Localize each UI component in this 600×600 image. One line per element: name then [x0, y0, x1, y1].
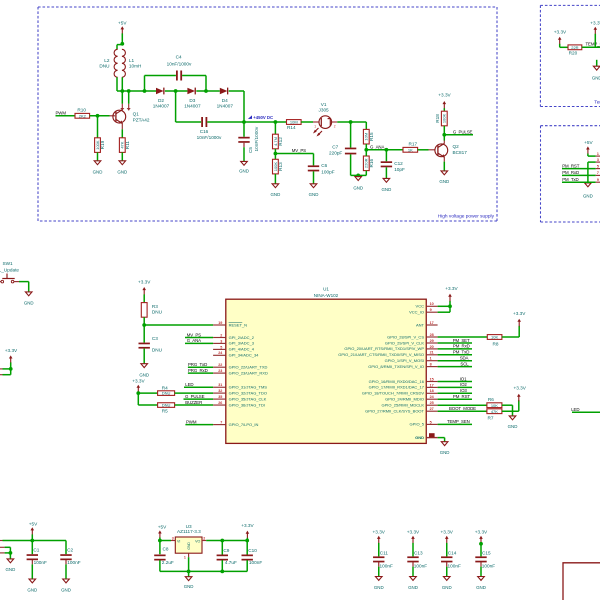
- svg-text:R3: R3: [152, 304, 158, 309]
- wire C4 left branch up: [144, 76, 146, 92]
- wire +3.3V to R3: [143, 294, 145, 302]
- power +3.3V (U1 VCC): [448, 294, 452, 297]
- U1 pin 28 GPIO_28/SPI_V_CS: [426, 336, 437, 338]
- svg-text:10nF/1000v: 10nF/1000v: [254, 126, 259, 151]
- U1 pin 24 GPI_34/ADC_34: [213, 354, 226, 356]
- svg-text:J305: J305: [319, 108, 330, 113]
- svg-text:2: 2: [334, 125, 336, 129]
- capacitor C15 100nF: [475, 556, 486, 558]
- svg-text:17: 17: [430, 383, 434, 387]
- wire +3.3V to connector pins: [10, 362, 12, 374]
- wire MV_PS to pin 2: [185, 337, 213, 339]
- U1 pin 26 GPIO_36/JTAG_TDI: [213, 404, 226, 406]
- svg-text:+3.3V: +3.3V: [438, 93, 451, 98]
- ground (sensor): [593, 66, 600, 70]
- power +5V (HV input): [121, 26, 125, 29]
- svg-text:PWM: PWM: [56, 111, 67, 116]
- junction MV_PS node: [274, 149, 276, 154]
- svg-text:GND: GND: [382, 187, 392, 192]
- capacitor C8 2.2uF: [154, 555, 165, 557]
- svg-text:VO: VO: [195, 539, 200, 543]
- svg-text:32: 32: [218, 389, 222, 393]
- svg-text:G_PULSE: G_PULSE: [185, 394, 205, 399]
- U1 pin GND: [426, 437, 437, 439]
- ground R19: [94, 161, 101, 165]
- sheet box: PM sensor connector (clipped): [541, 125, 600, 127]
- svg-text:7: 7: [597, 171, 599, 175]
- svg-text:21: 21: [430, 351, 434, 355]
- svg-text:100pF: 100pF: [321, 170, 334, 175]
- svg-text:GPIO_35/JTAG_CLK: GPIO_35/JTAG_CLK: [229, 396, 267, 401]
- svg-text:GPIO_1/SPI_V_MOSI: GPIO_1/SPI_V_MOSI: [385, 358, 424, 363]
- svg-text:GND: GND: [442, 585, 452, 590]
- U1 pin 23 GPIO_23/UART_RXD: [213, 372, 226, 374]
- svg-text:GND: GND: [6, 567, 16, 572]
- wire edge pin to +5V rail: [0, 540, 3, 542]
- wire to R5: [138, 404, 157, 406]
- wire PWM to R10: [56, 115, 76, 117]
- junction R12 top: [274, 120, 278, 124]
- wire PRG_RxD to pin 23: [188, 372, 213, 374]
- resistor R16 220R: [363, 156, 369, 171]
- svg-text:22R: 22R: [571, 45, 578, 50]
- svg-text:PM_SET: PM_SET: [453, 338, 470, 343]
- power +3.3V (C14): [445, 536, 449, 539]
- svg-text:GND: GND: [508, 424, 518, 429]
- power +3.3V (C11): [377, 536, 381, 539]
- svg-text:C9: C9: [223, 548, 229, 553]
- U1 pin 19 RESET_N: [213, 324, 226, 326]
- resistor R5 DNU: [158, 403, 175, 408]
- svg-text:+3.3V: +3.3V: [590, 20, 600, 25]
- svg-text:SW1: SW1: [3, 261, 14, 266]
- diode D2 1N4007: [156, 88, 164, 95]
- wire G_PULSE to pin 35: [184, 398, 214, 400]
- svg-text:DNU: DNU: [162, 403, 171, 408]
- svg-text:C2: C2: [67, 548, 73, 553]
- ground (PM connector): [585, 183, 592, 187]
- wire +3.3V to C13: [412, 543, 414, 557]
- power +5V (main input): [31, 527, 35, 530]
- edge connector gnd pins: [0, 546, 5, 548]
- svg-text:+450V DC: +450V DC: [253, 115, 273, 120]
- wire SDA: [438, 360, 472, 362]
- junction C9 bottom: [220, 570, 224, 574]
- svg-text:GPIO_16/RMII_RXD0/DAC_16: GPIO_16/RMII_RXD0/DAC_16: [369, 379, 425, 384]
- svg-text:1: 1: [184, 555, 186, 559]
- wire R7 to +3.3V: [502, 410, 519, 412]
- svg-text:L2: L2: [104, 58, 110, 63]
- svg-text:R20: R20: [569, 50, 578, 55]
- wire U1 GND pin to ground: [438, 437, 445, 439]
- svg-text:100nF: 100nF: [414, 564, 427, 569]
- wire VCC/VCC_IO to +3.3V: [438, 305, 450, 307]
- svg-text:18: 18: [430, 389, 434, 393]
- svg-text:PM_TxD: PM_TxD: [453, 350, 469, 355]
- sheet box: temperature sensor (clipped): [540, 4, 600, 6]
- svg-text:26: 26: [218, 401, 222, 405]
- wire Q1 collector pins to rail: [121, 91, 123, 104]
- junction C15: [479, 542, 483, 546]
- svg-text:23: 23: [218, 369, 222, 373]
- ground Q2: [441, 171, 448, 175]
- svg-text:8: 8: [430, 363, 432, 367]
- ground C13: [410, 577, 417, 581]
- wire L1 bottom to rail: [121, 77, 123, 91]
- svg-text:10nF/1000v: 10nF/1000v: [167, 62, 192, 67]
- svg-text:GND: GND: [309, 192, 319, 197]
- svg-text:PM_RxD: PM_RxD: [453, 344, 470, 349]
- wire jog to L2 top: [117, 44, 122, 46]
- svg-text:R16: R16: [369, 159, 374, 168]
- gnd rail U3: [160, 570, 247, 572]
- U1 pin 25 GPIO_25/RMII_MDCLK: [426, 404, 437, 406]
- U1 pin 15 GPIO_16/RMII_RXD0/DAC_16: [426, 381, 437, 383]
- svg-text:GPIO_5: GPIO_5: [410, 422, 425, 427]
- junction +450V node: [242, 120, 246, 124]
- junction R19 top: [96, 114, 100, 118]
- svg-text:R7: R7: [488, 416, 494, 421]
- svg-text:C12: C12: [394, 161, 403, 166]
- geiger tube V1 J305: [319, 116, 332, 129]
- svg-text:DNU: DNU: [162, 391, 171, 396]
- power +5V (regulator): [158, 530, 162, 533]
- svg-text:GPI_3/ADC_3: GPI_3/ADC_3: [229, 341, 255, 346]
- svg-text:15: 15: [430, 377, 434, 381]
- capacitor C14 100nF: [441, 556, 452, 558]
- U1 pin 5 GPIO_5: [426, 423, 437, 425]
- svg-text:Q1: Q1: [133, 112, 140, 117]
- svg-text:7: 7: [220, 421, 222, 425]
- junction U3 gnd: [187, 570, 191, 574]
- junction C12 top: [385, 148, 389, 152]
- svg-text:47K: 47K: [491, 409, 498, 414]
- wire PM_SET: [438, 342, 472, 344]
- svg-text:R6: R6: [488, 397, 494, 402]
- wire +5V to U3 VI: [159, 538, 161, 555]
- svg-text:LED: LED: [185, 382, 193, 387]
- power +3.3V (C13): [411, 536, 415, 539]
- svg-text:IO1: IO1: [460, 376, 467, 381]
- V1 radiation arrows: [314, 128, 318, 132]
- svg-text:GND: GND: [27, 587, 37, 592]
- svg-text:D4: D4: [222, 98, 228, 103]
- svg-text:10pF: 10pF: [394, 167, 405, 172]
- power +3.3V (second, clipped): [594, 27, 598, 30]
- svg-text:GPIO_28/SPI_V_CS: GPIO_28/SPI_V_CS: [387, 334, 424, 339]
- junction rail at C4 branch: [143, 89, 147, 93]
- svg-text:U3: U3: [186, 524, 192, 529]
- U1 pin 17 GPIO_17/RMII_RXD1/DAC_17: [426, 386, 437, 388]
- resistor R3 DNU: [141, 303, 147, 318]
- svg-text:High voltage power supply: High voltage power supply: [438, 214, 495, 220]
- svg-text:20: 20: [430, 345, 434, 349]
- power +3.3V (R20): [558, 37, 562, 40]
- svg-text:100nF: 100nF: [380, 564, 393, 569]
- svg-text:+3.3V: +3.3V: [514, 386, 527, 391]
- resistor R6 10K: [487, 403, 502, 408]
- junction VCC node: [448, 304, 452, 308]
- wire R15 to G_ANA node: [365, 144, 367, 150]
- ground U3: [185, 577, 192, 581]
- svg-text:22: 22: [218, 363, 222, 367]
- wire G_ANA to pin 3: [185, 342, 213, 344]
- svg-text:9: 9: [430, 308, 432, 312]
- wire SCL: [438, 366, 472, 368]
- U1 pin 18 GPIO_18/TOUCH_7/RMII_CRSDV: [426, 392, 437, 394]
- svg-text:R10: R10: [77, 108, 86, 113]
- svg-text:35: 35: [218, 395, 222, 399]
- svg-text:DNU: DNU: [152, 348, 163, 353]
- wire R3 to RESET node: [143, 317, 145, 325]
- ground C1: [29, 579, 36, 583]
- ground C5: [241, 161, 248, 165]
- svg-text:PRG_RxD: PRG_RxD: [188, 368, 208, 373]
- svg-text:2: 2: [220, 333, 222, 337]
- wire SW1 right pin: [14, 281, 19, 283]
- wire SW1 left pin to edge: [0, 281, 1, 283]
- svg-text:+5V: +5V: [29, 521, 38, 526]
- svg-text:3: 3: [172, 536, 174, 540]
- svg-text:DNU: DNU: [152, 310, 163, 315]
- wire pin28 to R8: [438, 336, 488, 338]
- svg-text:GND: GND: [476, 585, 486, 590]
- ground C3: [141, 364, 148, 368]
- svg-text:GPIO_24/RMII_MDIO: GPIO_24/RMII_MDIO: [385, 397, 424, 402]
- resistor R14 10M: [287, 120, 302, 125]
- wire IO1: [438, 381, 472, 383]
- wire D4 cathode to +450V node: [229, 90, 244, 92]
- svg-text:100nF: 100nF: [34, 560, 47, 565]
- svg-text:1N4007: 1N4007: [184, 104, 201, 109]
- svg-text:1: 1: [430, 357, 432, 361]
- svg-text:+3.3V: +3.3V: [373, 529, 386, 534]
- svg-text:19: 19: [218, 321, 222, 325]
- svg-text:100nF: 100nF: [249, 560, 262, 565]
- svg-text:GND: GND: [408, 585, 418, 590]
- svg-text:U1: U1: [323, 287, 329, 292]
- wire PM_RST: [438, 398, 472, 400]
- svg-text:1N4007: 1N4007: [153, 104, 170, 109]
- svg-text:VCC: VCC: [416, 304, 425, 309]
- wire R11 to gnd: [121, 152, 123, 160]
- svg-text:24: 24: [430, 395, 435, 399]
- svg-text:2.2uF: 2.2uF: [162, 560, 174, 565]
- wire V1 to C7/R15: [332, 121, 338, 123]
- svg-text:D2: D2: [158, 98, 164, 103]
- U1 pin 2 GPI_2/ADC_2: [213, 337, 226, 339]
- svg-text:GND: GND: [184, 584, 194, 589]
- svg-text:C5: C5: [248, 147, 253, 153]
- svg-text:+3.3V: +3.3V: [138, 280, 151, 285]
- svg-text:+5V: +5V: [584, 140, 593, 145]
- wire R20 to TEMP_S: [582, 46, 600, 48]
- U1 pin 31 GPIO_31/JTAG_TMS: [213, 386, 226, 388]
- svg-text:2K2: 2K2: [79, 113, 87, 118]
- svg-text:G_PULSE: G_PULSE: [453, 130, 473, 135]
- svg-text:FL_Update: FL_Update: [0, 267, 19, 272]
- ground R6: [509, 416, 516, 420]
- U1 pin 5 GPI_4/ADC_4: [213, 348, 226, 350]
- wire C16 to +450V node: [207, 121, 244, 123]
- svg-text:BUZZER: BUZZER: [185, 400, 202, 405]
- wire R14 to tube V1: [301, 121, 313, 123]
- svg-text:V1: V1: [321, 102, 327, 107]
- capacitor C10 100nF: [246, 541, 248, 555]
- capacitor C3 DNU: [143, 325, 145, 343]
- svg-text:GPIO_36/JTAG_TDI: GPIO_36/JTAG_TDI: [229, 402, 265, 407]
- svg-text:100K: 100K: [442, 113, 447, 123]
- svg-text:GND: GND: [187, 542, 191, 550]
- svg-text:29: 29: [430, 339, 434, 343]
- wire IO3: [438, 392, 472, 394]
- U1 pin 8 GPIO_8/RMII_TXEN/SPI_V_IO: [426, 366, 437, 368]
- wire to R15: [365, 122, 367, 129]
- wire R19 to gnd: [97, 152, 99, 160]
- svg-text:ANT: ANT: [416, 322, 425, 327]
- power +3.3V (R7): [517, 394, 521, 397]
- wire D3 to D4: [196, 90, 220, 92]
- svg-text:IO3: IO3: [460, 388, 467, 393]
- svg-text:GPIO_31/JTAG_TMS: GPIO_31/JTAG_TMS: [229, 385, 268, 390]
- U1 pin 9 VCC_IO: [426, 311, 437, 313]
- svg-text:+3.3V: +3.3V: [5, 348, 18, 353]
- svg-text:GPIO_32/JTAG_TDO: GPIO_32/JTAG_TDO: [229, 390, 267, 395]
- junction GND tap: [356, 174, 360, 178]
- svg-text:LED: LED: [571, 407, 579, 412]
- resistor R17 1K: [403, 147, 418, 152]
- junction C7 top: [349, 120, 353, 124]
- ground C14: [443, 577, 450, 581]
- junction D3-D4 / C4 branch: [204, 89, 208, 93]
- wire Q1 emitter to R11: [121, 123, 123, 129]
- svg-text:GPIO_20/UART_RTS/RMII_TXD1/SPI: GPIO_20/UART_RTS/RMII_TXD1/SPIV_WP: [344, 346, 424, 351]
- junction rail at Q1 collector b: [127, 89, 131, 93]
- svg-text:R8: R8: [493, 341, 499, 346]
- svg-text:PRG_TxD: PRG_TxD: [188, 362, 207, 367]
- svg-text:1K: 1K: [408, 147, 413, 152]
- svg-text:PM_RxD: PM_RxD: [562, 170, 579, 175]
- wire IO2: [438, 386, 472, 388]
- svg-text:Q2: Q2: [453, 144, 460, 149]
- svg-text:PM_RST: PM_RST: [453, 394, 471, 399]
- svg-text:GND: GND: [271, 192, 281, 197]
- svg-text:31: 31: [218, 383, 222, 387]
- wire C16 branch down: [175, 91, 177, 122]
- power +3.3V (R8): [517, 319, 521, 322]
- svg-text:GND: GND: [93, 170, 103, 175]
- svg-text:C13: C13: [414, 550, 423, 555]
- svg-text:R13: R13: [278, 162, 283, 171]
- svg-text:GPIO_23/UART_RXD: GPIO_23/UART_RXD: [229, 370, 268, 375]
- connector pin 3 to GND: [596, 161, 600, 163]
- svg-text:AZ1117-3.3: AZ1117-3.3: [177, 529, 201, 534]
- svg-text:R17: R17: [408, 142, 417, 147]
- svg-text:BC817: BC817: [453, 150, 468, 155]
- svg-text:+3.3V: +3.3V: [441, 529, 454, 534]
- ground SW1: [25, 292, 32, 296]
- power +3.3V (C15): [479, 536, 483, 539]
- svg-text:NINA-W102: NINA-W102: [314, 293, 339, 298]
- svg-text:+3.3V: +3.3V: [241, 523, 254, 528]
- svg-text:5: 5: [597, 164, 599, 168]
- U1 pin 35 GPIO_35/JTAG_CLK: [213, 398, 226, 400]
- power +3.3V (R4/R5): [137, 385, 141, 388]
- svg-text:C15: C15: [482, 550, 491, 555]
- svg-text:BOOT_MODE: BOOT_MODE: [449, 406, 476, 411]
- wire L2 bottom to rail: [116, 77, 118, 91]
- capacitor C5 10nF/1000v: [243, 122, 245, 137]
- inductor L2 (DNU): [114, 49, 118, 77]
- wire C4 right branch down: [182, 75, 206, 77]
- ground U1: [441, 442, 448, 446]
- svg-text:GND: GND: [353, 185, 363, 190]
- svg-text:GPIO_8/RMII_TXEN/SPI_V_IO: GPIO_8/RMII_TXEN/SPI_V_IO: [368, 364, 424, 369]
- svg-text:GND: GND: [139, 373, 149, 378]
- svg-text:TEMP_SE: TEMP_SE: [586, 41, 600, 46]
- U1 pin 20 GPIO_20/UART_RTS/RMII_TXD1/SPIV_WP: [426, 348, 437, 350]
- label +450V DC: [248, 115, 252, 119]
- wire MV_PS to C6: [275, 153, 313, 155]
- svg-text:GND: GND: [415, 435, 424, 440]
- junction G_PULSE node: [442, 133, 446, 137]
- svg-text:10K: 10K: [491, 403, 498, 408]
- capacitor C1 100nF: [27, 554, 38, 556]
- svg-text:5: 5: [430, 420, 432, 424]
- svg-text:Temp: Temp: [594, 99, 600, 105]
- svg-text:GPIO_17/RMII_RXD1/DAC_17: GPIO_17/RMII_RXD1/DAC_17: [369, 385, 425, 390]
- svg-text:17: 17: [430, 321, 434, 325]
- svg-text:R5: R5: [162, 409, 168, 414]
- IC U1 NINA-W102 body: [226, 299, 426, 443]
- svg-text:G_ANA: G_ANA: [370, 145, 384, 150]
- svg-text:R4: R4: [162, 385, 168, 390]
- svg-text:1: 1: [314, 125, 316, 129]
- wire pin25 to R6: [438, 404, 487, 406]
- resistor R4 DNU: [158, 391, 175, 396]
- wire to R4: [138, 392, 157, 394]
- svg-text:C7: C7: [332, 144, 338, 149]
- svg-text:4.7uF: 4.7uF: [225, 560, 237, 565]
- svg-text:PM_RST: PM_RST: [562, 163, 580, 168]
- ground C6: [310, 184, 317, 188]
- ground edge connector: [7, 559, 14, 563]
- resistor R11 47K: [119, 138, 125, 153]
- component box bottom-right (clipped): [563, 563, 600, 600]
- svg-text:220pF: 220pF: [329, 151, 342, 156]
- resistor R8 10K: [487, 335, 502, 340]
- svg-text:9: 9: [597, 178, 599, 182]
- svg-text:GPIO_18/TOUCH_7/RMII_CRSDV: GPIO_18/TOUCH_7/RMII_CRSDV: [362, 391, 424, 396]
- U1 pin 24 GPIO_24/RMII_MDIO: [426, 398, 437, 400]
- svg-text:C3: C3: [152, 336, 158, 341]
- wire PM_TxD: [438, 354, 472, 356]
- svg-text:GND: GND: [239, 168, 249, 173]
- capacitor C12 10pF: [385, 150, 387, 162]
- diode D4 1N4007: [220, 88, 228, 95]
- svg-text:100nF: 100nF: [448, 564, 461, 569]
- wire +450V node to R12/R14: [244, 121, 287, 123]
- wire to GND (sensor): [596, 60, 598, 66]
- junction rail at Q1 collector a: [120, 89, 124, 93]
- svg-text:GPIO_7/LPO_IN: GPIO_7/LPO_IN: [229, 422, 259, 427]
- svg-text:+5V: +5V: [158, 525, 167, 530]
- svg-text:1N4007: 1N4007: [217, 104, 234, 109]
- wire connector pin b: [0, 374, 3, 376]
- U1 pin 3 GPI_3/ADC_3: [213, 342, 226, 344]
- wire pin27 to R7: [438, 410, 487, 412]
- wire R17 to Q2 base: [418, 149, 429, 151]
